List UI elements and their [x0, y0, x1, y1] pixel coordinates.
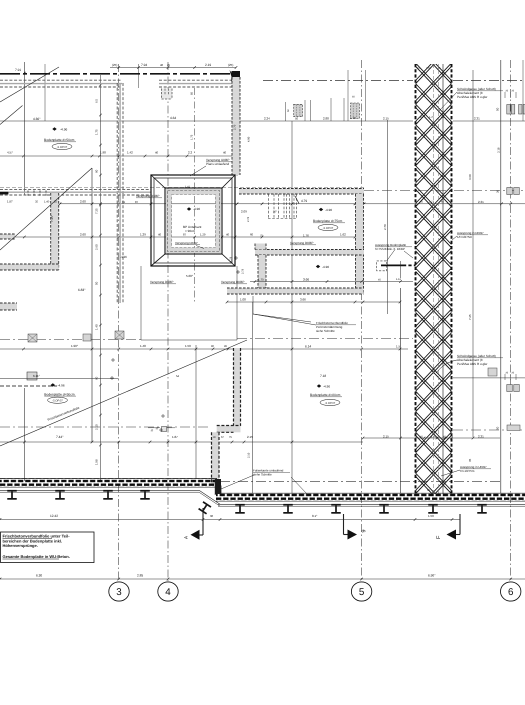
section arrow 6 middle: [343, 514, 345, 535]
grid line 3 dash-dot: [118, 64, 120, 581]
room left wall x=258-266: [258, 255, 266, 288]
svg-text:2.85: 2.85: [137, 574, 143, 578]
svg-text:5.68°: 5.68°: [186, 274, 194, 278]
svg-text:75: 75: [260, 234, 264, 238]
grid bubble 3: [109, 582, 129, 601]
svg-text:Bodenplatte d=50cm: Bodenplatte d=50cm: [44, 392, 75, 396]
shaft grey ring: [166, 189, 221, 253]
svg-text:Peri/Max ABS R o.glw: Peri/Max ABS R o.glw: [457, 362, 488, 366]
column pair right edge top: [519, 105, 522, 115]
svg-text:1.41: 1.41: [185, 185, 191, 188]
svg-text:-4.96: -4.96: [325, 208, 332, 212]
room top wall notch: [255, 244, 266, 250]
svg-text:40: 40: [223, 151, 227, 155]
svg-text:87: 87: [135, 200, 139, 204]
svg-text:4.36°: 4.36°: [33, 117, 41, 121]
column x=350: [351, 103, 360, 119]
small rect x=27 y=372: [27, 372, 37, 380]
svg-text:-4.90: -4.90: [323, 385, 330, 389]
svg-text:2.78: 2.78: [242, 268, 245, 274]
diagonal top-left long: [0, 67, 59, 102]
construction line x=196 lower: [195, 345, 197, 479]
extension lines x=305: [304, 100, 306, 121]
svg-text:1.70: 1.70: [429, 116, 435, 119]
svg-text:50: 50: [496, 426, 500, 430]
svg-text:1.62: 1.62: [340, 233, 346, 237]
svg-text:31: 31: [122, 200, 126, 204]
svg-text:Versprung DKBP: Versprung DKBP: [150, 280, 173, 284]
svg-text:60: 60: [250, 233, 254, 237]
svg-text:-5.OP.07: -5.OP.07: [323, 227, 334, 230]
svg-text:Höhenversprünge.: Höhenversprünge.: [3, 543, 38, 548]
svg-text:-5.OP.07: -5.OP.07: [325, 402, 336, 405]
svg-text:1.87: 1.87: [172, 435, 178, 439]
column pair x=507 y=187: [507, 188, 513, 195]
dimension line y=438 right: [363, 437, 500, 439]
I-beams left: [7, 490, 17, 500]
dash-dot y=339.5 left: [0, 339, 141, 341]
svg-text:Versprung DKBP: Versprung DKBP: [221, 280, 244, 284]
svg-text:6.11°: 6.11°: [33, 374, 41, 378]
construction line x=473: [472, 70, 474, 437]
svg-text:t=t-10/75m: t=t-10/75m: [460, 469, 475, 473]
svg-text:Versprung DKBP: Versprung DKBP: [136, 194, 159, 198]
svg-text:= 96cm: = 96cm: [185, 229, 196, 233]
svg-text:7.25: 7.25: [468, 314, 472, 320]
svg-text:2.60: 2.60: [80, 233, 86, 237]
svg-text:1.40: 1.40: [95, 324, 99, 330]
svg-text:Peri/Max ABS R o.glw: Peri/Max ABS R o.glw: [457, 95, 488, 99]
svg-text:1.76: 1.76: [303, 234, 309, 238]
svg-text:2.70: 2.70: [234, 124, 237, 130]
svg-text:7.44°: 7.44°: [56, 435, 64, 439]
band inner dashed lines: [433, 64, 435, 494]
svg-text:6.30: 6.30: [36, 574, 42, 578]
wall vertical x=212-219 bottom: [212, 432, 220, 484]
construction line x=400.5: [400, 288, 402, 493]
column x=507 y=425: [507, 425, 520, 431]
svg-text:6: 6: [360, 530, 366, 533]
svg-text:50: 50: [295, 117, 299, 121]
extension x=523: [522, 60, 524, 121]
svg-text:1.78: 1.78: [230, 256, 233, 262]
svg-text:1.75: 1.75: [95, 129, 99, 135]
svg-text:25: 25: [167, 63, 171, 67]
construction line x=252.7 lower: [252, 302, 254, 494]
dimension line y=442 left: [0, 441, 363, 443]
dashed box x=377 y=261: [377, 261, 387, 271]
pit outline below shaft: [140, 266, 142, 340]
extension line x=45: [44, 64, 46, 121]
column x=294: [294, 104, 303, 116]
svg-text:1.08: 1.08: [240, 298, 246, 302]
svg-text:Versprung DKBP: Versprung DKBP: [290, 241, 313, 245]
top dimension line y=67: [110, 67, 236, 69]
svg-text:40: 40: [160, 63, 164, 67]
svg-text:-5.OP.07: -5.OP.07: [57, 146, 68, 149]
svg-text:2.10: 2.10: [95, 424, 99, 430]
dimension line y=156: [0, 155, 236, 157]
svg-text:3.60: 3.60: [468, 174, 472, 180]
grid bubble 5: [351, 582, 371, 601]
svg-text:1/t=10/75m: 1/t=10/75m: [457, 235, 473, 239]
rail left: [0, 489, 199, 491]
wall step horizontal y=425-432: [217, 426, 241, 433]
svg-text:1.42: 1.42: [127, 151, 133, 155]
svg-text:1.50: 1.50: [185, 344, 191, 348]
rail right: [218, 503, 525, 505]
construction line x=237: [236, 120, 238, 176]
dimension line y=204: [60, 203, 525, 205]
construction line x=500.8: [500, 60, 502, 493]
svg-text:1.75: 1.75: [191, 134, 194, 140]
svg-text:2.15: 2.15: [383, 435, 389, 439]
note box: [1, 532, 95, 563]
left wall stub y=234: [0, 234, 15, 239]
svg-text:h=75/UKBok. lt. DKBP: h=75/UKBok. lt. DKBP: [375, 247, 405, 251]
wall vertical x=355-364: [356, 194, 364, 293]
column x=488 y=368: [488, 368, 497, 376]
svg-text:1.16: 1.16: [396, 278, 402, 281]
wall vertical x=232-240 upper: [232, 77, 240, 175]
axis dash-dot right y=80.5: [263, 80, 413, 82]
dash-dot y=338.5: [237, 338, 413, 340]
svg-text:-5.OP.07: -5.OP.07: [52, 400, 63, 403]
dimension line y=519.5: [0, 519, 460, 521]
svg-text:4: 4: [165, 587, 171, 598]
svg-text:2.2: 2.2: [188, 151, 193, 155]
shaft corner diagonals: [151, 175, 165, 188]
dash-dot y=481.4: [220, 480, 500, 482]
band left dashed border: [415, 64, 417, 494]
svg-text:50: 50: [95, 281, 99, 285]
svg-text:3.18: 3.18: [496, 147, 500, 153]
svg-text:1.70: 1.70: [426, 67, 431, 70]
construction line x=387.6: [387, 120, 389, 314]
svg-text:60: 60: [95, 169, 99, 173]
svg-text:2.60: 2.60: [95, 244, 99, 250]
grid line 5 dash-dot: [361, 60, 363, 581]
svg-text:2.24: 2.24: [264, 117, 270, 121]
grid bubble 4: [158, 582, 178, 601]
foundation strip left: [0, 479, 217, 487]
extension x=365.5: [365, 70, 367, 121]
left room wall bottom y=264-270: [0, 264, 59, 270]
svg-text:10°: 10°: [273, 211, 277, 214]
svg-text:-4.96: -4.96: [193, 207, 200, 211]
svg-text:2.15: 2.15: [247, 435, 253, 439]
svg-text:2.31: 2.31: [474, 117, 480, 121]
column pair x=507 top: [507, 105, 510, 115]
room bottom wall y=288-294: [227, 288, 364, 294]
horizontal line y=121: [0, 120, 413, 122]
svg-text:3: 3: [116, 587, 122, 598]
svg-text:6.5: 6.5: [95, 99, 99, 103]
svg-text:7.25°: 7.25°: [50, 214, 54, 222]
small columns y=334 row: [28, 334, 37, 342]
svg-text:siehe Schnitte: siehe Schnitte: [253, 473, 272, 477]
long diagonal middle: [0, 340, 247, 446]
svg-text:Versprung DKBP: Versprung DKBP: [175, 241, 198, 245]
wall horizontal y=188-194 right of shaft: [239, 189, 364, 195]
stair dashed lines: [268, 194, 270, 219]
room top wall y=249-255: [255, 250, 364, 256]
svg-text:3.66: 3.66: [303, 278, 309, 282]
wall stubs below y=195: [27, 191, 29, 197]
svg-text:4.57: 4.57: [7, 151, 13, 155]
svg-text:2.15: 2.15: [383, 117, 389, 121]
section arrow 4 left: [202, 508, 204, 535]
svg-text:1.70: 1.70: [431, 436, 437, 439]
dashes y=386 left: [0, 385, 57, 387]
svg-text:1.90°: 1.90°: [71, 344, 79, 348]
svg-text:45: 45: [224, 345, 227, 348]
rail slope: [199, 490, 220, 504]
svg-text:1.98: 1.98: [95, 459, 99, 465]
section arrow F right: [459, 514, 461, 535]
I-beam on slope: [198, 501, 211, 514]
dashed grey line y=187.5: [0, 187, 364, 189]
leader line y=314: [253, 314, 311, 322]
svg-text:6.14: 6.14: [305, 345, 311, 349]
svg-text:40: 40: [155, 151, 159, 155]
construction line x=24.3: [23, 62, 25, 195]
svg-text:2.88: 2.88: [323, 117, 329, 121]
extension line x=285.5: [285, 102, 287, 121]
svg-text:2.09: 2.09: [241, 210, 247, 214]
svg-text:-4.96: -4.96: [58, 384, 65, 388]
left room wall vertical x=51-59: [51, 193, 59, 270]
svg-text:7.91: 7.91: [15, 68, 21, 72]
construction line x=292: [291, 121, 293, 493]
black wall piece left y=192: [0, 192, 8, 195]
construction line x=24.5 lower: [24, 388, 26, 481]
svg-text:1.48: 1.48: [140, 344, 146, 348]
grid line 4 dash-dot: [167, 62, 169, 581]
dimension chain x=100.5: [100, 75, 102, 480]
dimension line y=349: [0, 348, 408, 350]
svg-text:-4.96: -4.96: [120, 255, 127, 259]
svg-text:12.42: 12.42: [50, 514, 58, 518]
svg-text:1.73: 1.73: [429, 201, 435, 204]
misc crosses: [111, 359, 115, 361]
extension line x=138.5: [138, 64, 140, 88]
stair arrow: [295, 196, 299, 204]
svg-text:6.90°: 6.90°: [428, 574, 436, 578]
svg-text:-4.96: -4.96: [60, 128, 67, 132]
svg-text:40: 40: [158, 233, 162, 237]
band right dashed border: [451, 64, 453, 494]
svg-text:7.94: 7.94: [141, 63, 147, 67]
shaft labels: [187, 207, 191, 211]
foundation strip right: [216, 494, 525, 502]
svg-text:7.25: 7.25: [95, 208, 99, 214]
wall dashes y=189-195 far left: [0, 191, 151, 193]
lower-left labels: [51, 383, 55, 387]
dash-dot y=190.5 right part: [364, 190, 525, 192]
grid bubble 6: [501, 582, 521, 601]
svg-text:Bodenplatte d=75cm: Bodenplatte d=75cm: [313, 219, 343, 223]
svg-text:25: 25: [54, 201, 57, 204]
svg-text:4.79: 4.79: [301, 199, 307, 203]
svg-text:54: 54: [176, 374, 180, 378]
svg-text:50: 50: [496, 107, 500, 111]
svg-text:1.29: 1.29: [200, 233, 206, 237]
dash-dot y=427 left: [0, 426, 211, 428]
svg-text:1.50: 1.50: [428, 514, 434, 518]
svg-text:2.60: 2.60: [80, 200, 86, 204]
svg-text:5: 5: [359, 587, 365, 598]
svg-text:1.98: 1.98: [100, 151, 106, 155]
wall cap black: [232, 71, 241, 77]
dimension line y=302: [227, 301, 400, 303]
svg-text:1.87: 1.87: [7, 200, 13, 204]
svg-text:2.31: 2.31: [478, 435, 484, 439]
svg-text:2.70: 2.70: [383, 224, 387, 230]
shaft outer square: [151, 175, 235, 266]
svg-text:(25): (25): [228, 63, 233, 67]
svg-text:siehe Schnitte: siehe Schnitte: [316, 329, 335, 333]
aussprung thick marker: [381, 264, 403, 266]
svg-text:36: 36: [210, 514, 214, 518]
svg-text:30: 30: [497, 190, 500, 193]
wall vertical x=233-241 lower: [234, 348, 241, 426]
svg-text:35: 35: [468, 458, 472, 462]
wall vertical x=115-123: [119, 83, 121, 303]
wall stub T x=163: [162, 89, 173, 100]
dimension line y=237: [0, 236, 363, 238]
shaft inner square: [165, 188, 222, 254]
svg-text:87: 87: [183, 233, 187, 237]
svg-text:6: 6: [508, 587, 514, 598]
thin line y=377.9 right: [453, 377, 525, 379]
left wall stub y=303: [0, 303, 17, 310]
svg-text:2.10: 2.10: [248, 452, 251, 458]
svg-text:Bodenplatte d=80cm: Bodenplatte d=80cm: [310, 393, 341, 397]
svg-text:85: 85: [191, 92, 194, 95]
leader vertical x=253: [252, 296, 254, 314]
svg-text:4.90: 4.90: [248, 136, 251, 142]
aussprung leader: [387, 250, 395, 261]
construction line x=92: [91, 168, 93, 442]
svg-text:2.19: 2.19: [205, 63, 211, 67]
svg-text:2.31: 2.31: [478, 200, 484, 204]
svg-text:Plans umlaufend: Plans umlaufend: [206, 162, 229, 166]
grid line 6 dash-dot: [510, 60, 512, 581]
column pair x=507 y=384: [507, 385, 513, 392]
svg-text:1.40: 1.40: [44, 201, 50, 204]
arrow marker top wall: [230, 70, 235, 78]
diagonal left middle: [0, 168, 92, 250]
svg-text:35: 35: [35, 201, 38, 204]
svg-text:Bodenplatte d=50cm: Bodenplatte d=50cm: [44, 138, 75, 142]
svg-text:90: 90: [211, 345, 214, 348]
I-beams right: [235, 504, 245, 514]
extension x=348: [347, 70, 349, 121]
svg-text:(25): (25): [112, 63, 117, 67]
svg-text:7.18: 7.18: [320, 374, 326, 378]
svg-text:1.75: 1.75: [258, 278, 264, 282]
strip vertical jog: [215, 479, 221, 494]
svg-text:8.1°: 8.1°: [312, 514, 318, 518]
diagonal top-left short: [0, 106, 23, 125]
dash-dot y=430 right: [453, 429, 525, 431]
svg-text:1.76: 1.76: [350, 116, 356, 120]
top wall axis thick dash-dot: [0, 73, 233, 75]
dimension line y=281.5: [250, 281, 413, 283]
svg-text:1.5: 1.5: [396, 345, 401, 349]
shaft axis x=194.6: [194, 88, 196, 302]
svg-text:Gesamte Bodenplatte in WU-Beto: Gesamte Bodenplatte in WU-Beton.: [3, 554, 70, 559]
svg-text:6.83°: 6.83°: [78, 288, 86, 292]
extension x=331: [330, 98, 332, 121]
svg-text:4.64: 4.64: [170, 116, 176, 120]
svg-text:-4.96: -4.96: [322, 265, 329, 269]
svg-text:2.78: 2.78: [247, 216, 250, 222]
svg-text:1.29: 1.29: [140, 233, 146, 237]
top wall left segment: [0, 83, 122, 85]
top wall right segment: [159, 83, 236, 85]
svg-text:40: 40: [226, 233, 230, 237]
svg-text:60: 60: [95, 376, 99, 380]
small symbols y=427: [162, 427, 167, 432]
long dimension line y=579: [0, 578, 525, 580]
svg-text:3.66: 3.66: [300, 298, 306, 302]
